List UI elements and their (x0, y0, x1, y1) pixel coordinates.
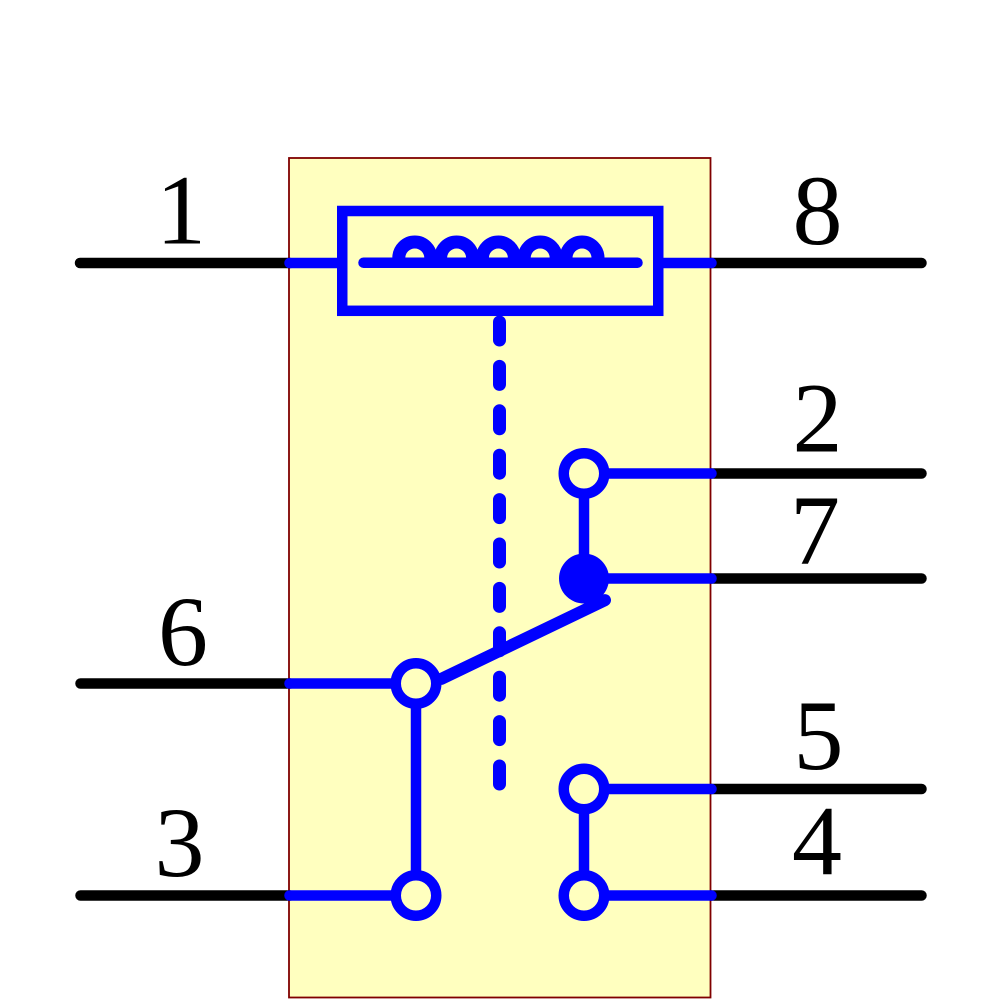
wire pin 5 to contact (584, 784, 712, 795)
contact pin 2 (NC) (564, 453, 605, 494)
relay body K1 (yellow outline box) (289, 158, 711, 998)
wire pin 7 to common node (584, 573, 712, 584)
pin 5 wire (711, 784, 922, 795)
wire pin 4 to contact (584, 890, 712, 901)
wire contact 6 to contact 3 (411, 684, 422, 896)
wire pin 2 to contact (584, 468, 712, 479)
pin 2 wire (711, 468, 922, 479)
pin 3 wire (81, 890, 291, 901)
coil winding L1 turns (399, 242, 598, 258)
svg-text:7: 7 (790, 475, 840, 586)
contact pin 5 (564, 769, 605, 810)
svg-text:5: 5 (794, 680, 844, 791)
coil box (342, 211, 658, 311)
pin 8 wire (711, 258, 922, 269)
switch armature arm (442, 600, 606, 679)
wire contact 2 to common node (579, 474, 590, 579)
pin 1 wire (80, 258, 290, 269)
pin 7 wire (711, 573, 922, 584)
wire contact 5 to contact 4 (579, 789, 590, 896)
actuator dashed link (493, 322, 506, 795)
common node pin 7 (junction dot) (559, 554, 609, 604)
svg-text:8: 8 (793, 155, 843, 266)
contact pin 3 (396, 875, 437, 916)
svg-text:4: 4 (792, 786, 842, 897)
svg-text:3: 3 (155, 787, 205, 898)
wire pin 3 to contact (290, 890, 417, 901)
contact pin 6 (396, 663, 437, 704)
contact pin 4 (564, 875, 605, 916)
pin 6 wire (81, 678, 291, 689)
pin 4 wire (711, 890, 922, 901)
wire coil lead pin 1 (290, 258, 343, 269)
svg-text:6: 6 (158, 576, 208, 687)
wire pin 6 to contact (290, 678, 417, 689)
svg-text:1: 1 (156, 155, 206, 266)
coil winding L1 lead (364, 257, 638, 268)
svg-text:2: 2 (793, 363, 843, 474)
wire coil lead pin 8 (659, 258, 712, 269)
